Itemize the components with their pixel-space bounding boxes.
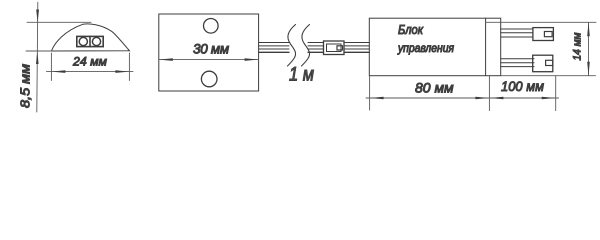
arrow 80 mm right (points right): [475, 97, 489, 100]
extension line 80/100 mm middle: [488, 76, 490, 111]
extension line 14 mm top: [486, 21, 596, 23]
extension line 100 mm right: [555, 76, 557, 111]
sensor dome outline: [51, 24, 129, 51]
svg-text:24 мм: 24 мм: [72, 55, 108, 69]
arrow 14 mm bottom (points down): [587, 62, 590, 76]
svg-text:Блок: Блок: [398, 23, 424, 37]
control block partition line: [485, 18, 487, 75]
dimension line 24 mm: [47, 71, 134, 73]
control block bottom extension line (to 14 mm dim): [501, 75, 596, 77]
svg-text:8,5 мм: 8,5 мм: [19, 64, 33, 108]
inline connector body: [324, 41, 345, 55]
arrow 30 mm right (points right): [245, 58, 259, 61]
cable wires left of break (4 wires): [259, 43, 289, 53]
arrow 80 mm left (points left): [370, 97, 384, 100]
sensor LED window rectangle: [77, 36, 103, 46]
svg-text:управления: управления: [397, 43, 454, 55]
dimension line 8.5 mm vertical: [37, 2, 38, 112]
extension line 24 mm right: [128, 53, 130, 81]
reed switch bottom hole: [201, 71, 217, 87]
arrow 100 mm left (points left): [489, 97, 503, 100]
reed switch top hole: [204, 19, 219, 34]
dimension line 14 mm vertical: [588, 22, 590, 75]
wires connector to control block (4 wires): [344, 43, 369, 53]
extension line 24 mm left: [50, 53, 52, 81]
cable break squiggle 2: [302, 25, 310, 67]
output wires bottom group (3 wires): [501, 59, 534, 67]
arrow 8.5 mm bottom (points up): [36, 51, 39, 64]
arrow 100 mm right (points right): [542, 97, 556, 100]
output wires top group (3 wires): [501, 29, 533, 37]
svg-text:1 м: 1 м: [289, 65, 314, 86]
reed switch body rectangle: [159, 14, 259, 91]
sensor LED right circle: [92, 37, 100, 45]
arrow 8.5 mm top (points down): [36, 10, 39, 23]
svg-text:30 мм: 30 мм: [193, 42, 229, 57]
arrow 24 mm left (points left): [51, 70, 65, 73]
dimension line 100 mm: [489, 97, 558, 99]
control block body: [369, 18, 500, 75]
svg-text:14 мм: 14 мм: [572, 32, 584, 60]
dimension line 30 mm: [159, 59, 259, 61]
arrow 24 mm right (points right): [115, 70, 129, 73]
svg-text:80 мм: 80 мм: [415, 80, 454, 96]
extension line dome top: [27, 21, 91, 23]
cable wires right of break (4 wires): [308, 43, 324, 53]
svg-text:100 мм: 100 мм: [501, 78, 544, 94]
output connector top: [533, 28, 554, 41]
arrow 14 mm top (points up): [587, 22, 590, 36]
extension line dome bottom left: [26, 50, 52, 52]
arrow 30 mm left (points left): [159, 58, 173, 61]
cable break squiggle 1: [288, 25, 296, 67]
extension line 80 mm left: [369, 76, 371, 110]
output connector bottom: [533, 55, 553, 71]
dimension line 80 mm: [366, 97, 493, 99]
sensor LED left circle: [79, 37, 87, 45]
